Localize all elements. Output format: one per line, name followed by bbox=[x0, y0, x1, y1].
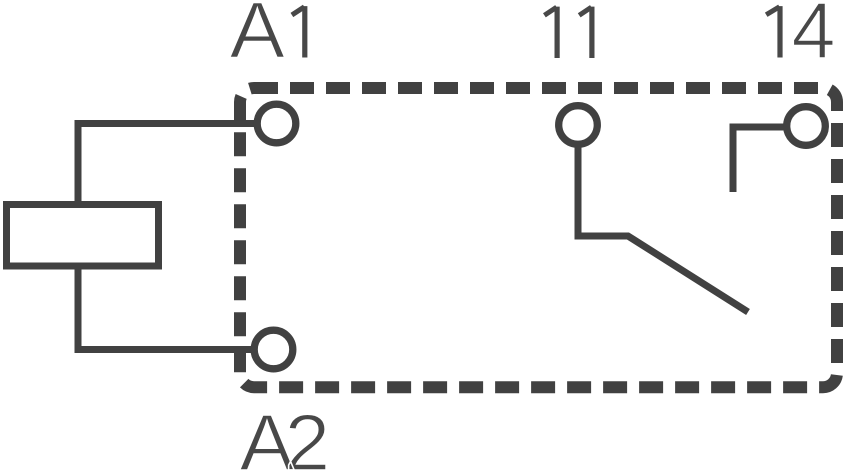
svg-text:4: 4 bbox=[792, 0, 836, 75]
svg-text:A: A bbox=[230, 0, 286, 75]
svg-text:A2: A2 bbox=[240, 398, 327, 472]
